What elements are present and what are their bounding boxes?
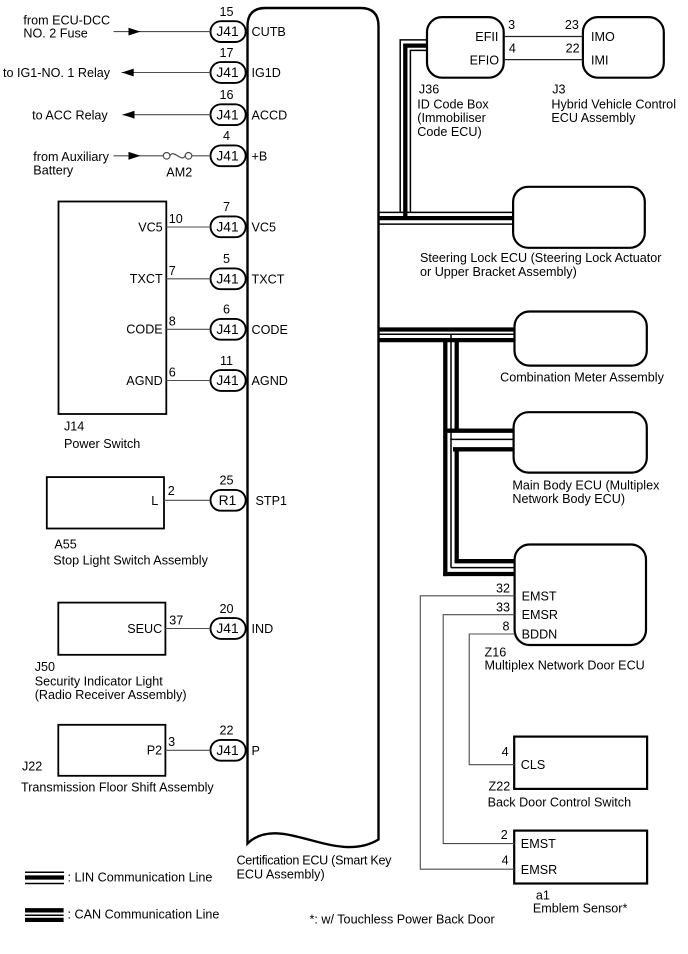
svg-text:Battery: Battery	[33, 164, 74, 178]
svg-text:6: 6	[223, 303, 230, 317]
terminal BDDN of Z16	[522, 628, 558, 642]
terminal name ACCD inside ECU	[252, 108, 288, 122]
pin number 3 of J22	[168, 735, 175, 749]
component Combination Meter Assembly box	[515, 312, 647, 366]
legend CAN communication line symbol	[25, 910, 64, 920]
label ECU Assembly	[551, 111, 636, 125]
pin number 4 above oval	[223, 129, 230, 143]
legend LIN communication line symbol	[25, 872, 64, 883]
ECU Certification ECU (Smart Key ECU Assembly) body outline	[248, 8, 379, 847]
svg-text:J36: J36	[419, 83, 439, 97]
svg-text:EMST: EMST	[522, 589, 557, 603]
svg-text:CODE: CODE	[126, 323, 162, 337]
svg-text:Z16: Z16	[485, 645, 507, 659]
connector oval J41 pin 5 (TXCT)	[211, 268, 246, 289]
svg-text:6: 6	[169, 366, 176, 380]
svg-text:J41: J41	[216, 621, 238, 636]
label J22	[22, 759, 42, 773]
label Hybrid Vehicle Control	[551, 97, 676, 111]
wire to ACC relay from J41 pin 16	[123, 114, 211, 116]
label Transmission Floor Shift Assembly	[21, 781, 214, 795]
svg-text:7: 7	[169, 264, 176, 278]
wire to IG1 relay from J41 pin 17	[122, 72, 211, 74]
pin number 7 of J14	[169, 264, 176, 278]
component Main Body ECU box	[514, 412, 647, 472]
wire A55 L to R1	[164, 499, 211, 501]
fusible link AM2 symbol	[163, 153, 192, 160]
terminal CLS of Z22	[521, 758, 546, 772]
svg-text:8: 8	[502, 620, 509, 634]
svg-text:J41: J41	[216, 24, 238, 39]
wire J14 AGND to ECU	[166, 380, 210, 382]
label J36	[419, 83, 439, 97]
svg-text:J41: J41	[216, 322, 238, 337]
svg-text:33: 33	[496, 600, 510, 614]
component J50 Security Indicator Light box	[58, 603, 165, 655]
label J14	[64, 420, 84, 434]
wire from auxiliary battery to AM2	[114, 155, 164, 157]
pin number 17 above oval	[219, 46, 233, 60]
svg-text:Steering Lock ECU (Steering Lo: Steering Lock ECU (Steering Lock Actuato…	[420, 251, 662, 265]
pin number 33 of Z16	[496, 600, 510, 614]
svg-text:VC5: VC5	[252, 220, 277, 234]
svg-text:(Radio Receiver Assembly): (Radio Receiver Assembly)	[35, 688, 187, 702]
pin number 11 above oval	[220, 354, 233, 368]
pin number 8 of J14	[169, 314, 176, 328]
svg-text:4: 4	[223, 129, 230, 143]
wire J50 SEUC to ECU	[165, 628, 210, 630]
svg-text:Stop Light Switch Assembly: Stop Light Switch Assembly	[53, 554, 208, 568]
svg-text:J50: J50	[35, 660, 55, 674]
label from Auxiliary Battery	[33, 150, 109, 178]
svg-text:22: 22	[219, 724, 233, 738]
label to IG1-NO. 1 Relay	[3, 66, 111, 80]
wire J14 TXCT to ECU	[166, 278, 210, 280]
svg-text:J3: J3	[552, 83, 565, 97]
label Combination Meter Assembly	[500, 370, 664, 384]
terminal IMI of J3	[591, 53, 609, 67]
svg-text:10: 10	[169, 212, 183, 226]
label Z16	[485, 645, 507, 659]
svg-text:or Upper Bracket Assembly): or Upper Bracket Assembly)	[420, 265, 577, 279]
wire Z16 BDDN(8) to Z22 CLS(4)	[469, 634, 514, 765]
pin number 23 (IMO)	[565, 18, 579, 32]
label Security Indicator Light	[35, 675, 164, 689]
pin number 8 of Z16	[502, 620, 509, 634]
component a1 Emblem Sensor box	[514, 831, 647, 884]
terminal IMO of J3	[591, 30, 615, 44]
terminal EFII of J36	[475, 30, 498, 44]
label (Immobiliser	[417, 111, 486, 125]
terminal VC5 of J14	[138, 220, 163, 234]
connector oval J41 pin 6 (CODE)	[211, 319, 246, 340]
pin number 16 above oval	[219, 88, 233, 102]
svg-text:J41: J41	[216, 148, 238, 163]
svg-text:TXCT: TXCT	[130, 272, 163, 286]
label to ACC Relay	[32, 108, 108, 122]
arrow to IG1 relay (pointing left)	[122, 69, 134, 77]
pin number 4 of Z22	[502, 745, 509, 759]
svg-text:EFII: EFII	[475, 30, 498, 44]
component J22 Transmission Floor Shift box	[58, 725, 165, 776]
pin number 22 (IMI)	[566, 41, 580, 55]
svg-text:: CAN Communication Line: : CAN Communication Line	[68, 907, 220, 921]
svg-text:Back Door Control Switch: Back Door Control Switch	[488, 795, 631, 809]
svg-text:J41: J41	[216, 219, 238, 234]
svg-text:A55: A55	[54, 537, 76, 551]
svg-text:L: L	[151, 494, 158, 508]
terminal AGND of J14	[126, 374, 162, 388]
svg-text:Code ECU): Code ECU)	[417, 125, 481, 139]
LIN branch to J36 (vertical + elbow into J36)	[400, 40, 427, 217]
component Z16 Multiplex Network Door ECU box	[515, 545, 646, 646]
wire J14 CODE to ECU	[166, 328, 210, 330]
label AM2	[166, 165, 192, 179]
svg-text:CODE: CODE	[252, 323, 288, 337]
svg-text:Combination Meter Assembly: Combination Meter Assembly	[500, 370, 664, 384]
svg-text:CUTB: CUTB	[252, 25, 286, 39]
svg-text:from Auxiliary: from Auxiliary	[33, 150, 109, 164]
connector oval J41 pin 11 (AGND)	[211, 370, 246, 391]
label Z22	[489, 780, 511, 794]
CAN branch into Main Body ECU	[444, 431, 514, 450]
connector oval J41 pin 15 (CUTB)	[211, 21, 246, 42]
label Certification ECU (Smart Key ECU Assembly)	[237, 854, 393, 882]
pin number 2 of A55	[168, 484, 175, 498]
terminal P2 of J22	[147, 744, 162, 758]
connector oval J41 pin 22 (P)	[211, 740, 246, 761]
CAN elbow into Z16	[445, 561, 514, 576]
terminal SEUC of J50	[127, 622, 162, 636]
label from ECU-DCC NO. 2 Fuse	[23, 13, 110, 40]
svg-text:2: 2	[168, 484, 175, 498]
wire from ECU-DCC fuse to J41 pin 15	[114, 31, 211, 33]
svg-text:J41: J41	[216, 65, 238, 80]
connector oval J41 pin 16 (ACCD)	[211, 104, 246, 125]
svg-text:3: 3	[508, 18, 515, 32]
terminal CODE of J14	[126, 323, 162, 337]
svg-text:AGND: AGND	[252, 374, 288, 388]
legend text CAN Communication Line	[68, 907, 220, 921]
label Multiplex Network Door ECU	[485, 658, 645, 672]
component J14 Power Switch box	[59, 202, 167, 415]
terminal name TXCT inside ECU	[252, 272, 285, 286]
svg-text:Certification ECU (Smart Key: Certification ECU (Smart Key	[237, 854, 393, 868]
svg-text:J41: J41	[216, 271, 238, 286]
label Back Door Control Switch	[488, 795, 631, 809]
svg-text:EMSR: EMSR	[521, 863, 557, 877]
svg-text:Z22: Z22	[489, 780, 511, 794]
label Code ECU)	[417, 125, 481, 139]
connector oval J41 pin 17 (IG1D)	[211, 62, 246, 83]
wire J14 VC5 to ECU	[166, 226, 210, 228]
svg-text:17: 17	[219, 46, 233, 60]
component Steering Lock ECU box	[513, 187, 645, 248]
svg-text:ACCD: ACCD	[252, 108, 288, 122]
svg-text:2: 2	[501, 828, 508, 842]
connector oval J41 pin 20 (IND)	[211, 618, 246, 639]
arrow into CUTB (pointing right)	[129, 28, 141, 36]
pin number 2 of a1	[501, 828, 508, 842]
label J50	[35, 660, 55, 674]
svg-text:EFIO: EFIO	[470, 53, 500, 67]
wire Z16 EMSR(33) to a1 EMST(2)	[443, 615, 514, 844]
svg-text:25: 25	[219, 474, 233, 488]
wire EFII to IMO	[504, 36, 583, 38]
footnote w/ Touchless Power Back Door	[310, 913, 495, 927]
connector oval R1 pin 25 (STP1)	[211, 490, 246, 511]
pin number 4 of a1	[502, 854, 509, 868]
terminal name AGND inside ECU	[252, 374, 288, 388]
pin number 10 of J14	[169, 212, 183, 226]
svg-text:20: 20	[219, 602, 233, 616]
terminal EMSR of Z16	[522, 608, 558, 622]
svg-text:P: P	[252, 744, 260, 758]
svg-text:(Immobiliser: (Immobiliser	[417, 111, 486, 125]
label (Radio Receiver Assembly)	[35, 688, 187, 702]
label a1	[536, 888, 550, 902]
svg-text:Multiplex Network Door ECU: Multiplex Network Door ECU	[485, 658, 645, 672]
terminal name IG1D inside ECU	[252, 66, 281, 80]
svg-text:IMO: IMO	[591, 30, 615, 44]
svg-text:8: 8	[169, 314, 176, 328]
svg-text:23: 23	[565, 18, 579, 32]
connector oval J41 pin 7 (VC5)	[211, 216, 246, 237]
legend text LIN Communication Line	[68, 870, 213, 884]
svg-text:7: 7	[223, 200, 230, 214]
svg-text:ID Code Box: ID Code Box	[417, 97, 489, 111]
svg-text:Emblem Sensor*: Emblem Sensor*	[533, 902, 628, 916]
terminal name IND inside ECU	[252, 622, 274, 636]
LIN bus horizontal to Steering Lock ECU (thin-thick-thin)	[379, 212, 514, 224]
svg-text:: LIN Communication Line: : LIN Communication Line	[68, 870, 213, 884]
pin number 32 of Z16	[496, 581, 510, 595]
wire from AM2 to J41 pin 4	[192, 155, 211, 157]
CAN bus horizontal to Combination Meter (thick-thin-thick)	[379, 330, 515, 341]
svg-text:4: 4	[509, 41, 516, 55]
component Z22 Back Door Control Switch box	[514, 737, 647, 789]
svg-text:a1: a1	[536, 888, 550, 902]
svg-text:CLS: CLS	[521, 758, 546, 772]
svg-text:Hybrid Vehicle Control: Hybrid Vehicle Control	[551, 97, 676, 111]
svg-text:NO. 2 Fuse: NO. 2 Fuse	[23, 26, 87, 40]
svg-text:J14: J14	[64, 420, 84, 434]
svg-text:3: 3	[168, 735, 175, 749]
svg-text:SEUC: SEUC	[127, 622, 162, 636]
pin number 5 above oval	[223, 252, 230, 266]
label or Upper Bracket Assembly)	[420, 265, 577, 279]
svg-text:EMST: EMST	[521, 837, 556, 851]
pin number 37 of J50	[169, 613, 183, 627]
svg-text:to IG1-NO. 1 Relay: to IG1-NO. 1 Relay	[3, 66, 111, 80]
pin number 22 above oval	[219, 724, 233, 738]
component J36 ID Code Box	[427, 17, 504, 78]
terminal name CUTB inside ECU	[252, 25, 286, 39]
terminal EMST of Z16	[522, 589, 557, 603]
svg-text:P2: P2	[147, 744, 162, 758]
component A55 Stop Light Switch box	[47, 477, 164, 528]
terminal name CODE inside ECU	[252, 323, 288, 337]
terminal name P inside ECU	[252, 744, 260, 758]
svg-text:R1: R1	[219, 493, 237, 508]
terminal EFIO of J36	[470, 53, 500, 67]
arrow from auxiliary battery (pointing right)	[129, 152, 141, 160]
svg-text:4: 4	[502, 745, 509, 759]
svg-text:+B: +B	[252, 149, 268, 163]
svg-text:4: 4	[502, 854, 509, 868]
label A55	[54, 537, 76, 551]
pin number 3 (EFII)	[508, 18, 515, 32]
pin number 15 above oval	[219, 5, 233, 19]
wire J22 P2 to ECU	[165, 749, 210, 751]
svg-text:J22: J22	[22, 759, 42, 773]
svg-text:to ACC Relay: to ACC Relay	[32, 108, 108, 122]
pin number 7 above oval	[223, 200, 230, 214]
svg-text:Power Switch: Power Switch	[64, 437, 140, 451]
svg-text:J41: J41	[216, 373, 238, 388]
svg-text:Main Body ECU (Multiplex: Main Body ECU (Multiplex	[512, 478, 660, 492]
terminal name STP1 inside ECU	[256, 494, 288, 508]
svg-text:37: 37	[169, 613, 183, 627]
svg-text:22: 22	[566, 41, 580, 55]
label Stop Light Switch Assembly	[53, 554, 208, 568]
label Power Switch	[64, 437, 140, 451]
terminal EMSR of a1	[521, 863, 557, 877]
svg-text:AGND: AGND	[126, 374, 162, 388]
svg-text:ECU Assembly: ECU Assembly	[551, 111, 636, 125]
svg-text:Transmission Floor Shift Assem: Transmission Floor Shift Assembly	[21, 781, 214, 795]
svg-text:IND: IND	[252, 622, 274, 636]
label Steering Lock ECU (Steering Lock Actuator	[420, 251, 662, 265]
wire EFIO to IMI	[504, 59, 583, 61]
svg-text:from ECU-DCC: from ECU-DCC	[23, 13, 110, 27]
svg-text:BDDN: BDDN	[522, 628, 558, 642]
svg-text:IMI: IMI	[591, 53, 609, 67]
terminal name VC5 inside ECU	[252, 220, 277, 234]
terminal TXCT of J14	[130, 272, 163, 286]
connector oval J41 pin 4 (+B)	[211, 145, 246, 166]
pin number 6 above oval	[223, 303, 230, 317]
pin number 6 of J14	[169, 366, 176, 380]
pin number 25 above oval	[219, 474, 233, 488]
label Main Body ECU (Multiplex	[512, 478, 660, 492]
wire Z16 EMST(32) to a1 EMSR(4)	[420, 596, 514, 869]
svg-text:Network Body ECU): Network Body ECU)	[512, 492, 625, 506]
svg-text:16: 16	[219, 88, 233, 102]
svg-text:IG1D: IG1D	[252, 66, 281, 80]
svg-text:Security Indicator Light: Security Indicator Light	[35, 675, 164, 689]
svg-text:AM2: AM2	[166, 165, 192, 179]
svg-text:EMSR: EMSR	[522, 608, 558, 622]
svg-text:VC5: VC5	[138, 220, 163, 234]
svg-text:J41: J41	[216, 743, 238, 758]
label J3	[552, 83, 565, 97]
component J3 Hybrid Vehicle Control ECU box	[583, 17, 664, 78]
terminal L of A55	[151, 494, 158, 508]
arrow to ACC relay (pointing left)	[123, 111, 135, 119]
svg-text:15: 15	[219, 5, 233, 19]
CAN vertical branch (drop to Z16)	[445, 334, 456, 576]
svg-text:J41: J41	[216, 107, 238, 122]
pin number 20 above oval	[219, 602, 233, 616]
pin number 4 (EFIO)	[509, 41, 516, 55]
terminal name +B inside ECU	[252, 149, 268, 163]
label Network Body ECU)	[512, 492, 625, 506]
svg-text:5: 5	[223, 252, 230, 266]
svg-text:TXCT: TXCT	[252, 272, 285, 286]
svg-text:STP1: STP1	[256, 494, 288, 508]
svg-text:ECU Assembly): ECU Assembly)	[237, 868, 325, 882]
label ID Code Box	[417, 97, 489, 111]
svg-text:11: 11	[220, 354, 233, 368]
svg-text:32: 32	[496, 581, 510, 595]
terminal EMST of a1	[521, 837, 556, 851]
svg-text:*: w/ Touchless Power Back Doo: *: w/ Touchless Power Back Door	[310, 913, 495, 927]
label Emblem Sensor*	[533, 902, 628, 916]
